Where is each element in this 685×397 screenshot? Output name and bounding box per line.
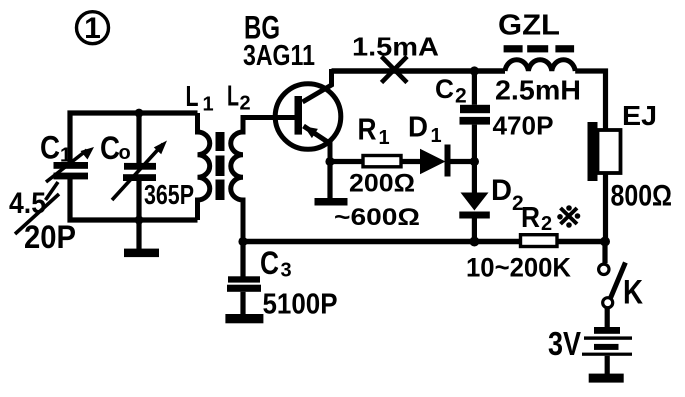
svg-text:D: D [408, 112, 428, 144]
svg-text:C: C [40, 130, 60, 166]
diode D1 [420, 149, 446, 174]
capacitor C2 [472, 71, 477, 105]
svg-text:2: 2 [512, 192, 524, 215]
svg-text:1: 1 [60, 145, 71, 167]
svg-text:10~200K: 10~200K [466, 253, 571, 283]
svg-text:365P: 365P [144, 179, 194, 210]
ground battery [589, 374, 624, 383]
svg-text:o: o [119, 142, 131, 164]
capacitor C0 arrow [112, 144, 163, 200]
node tank bottom [135, 216, 144, 225]
svg-text:GZL: GZL [498, 10, 560, 42]
node C2 top [470, 66, 479, 75]
svg-text:470P: 470P [493, 111, 554, 141]
node bottom L2/C3 [238, 237, 247, 246]
svg-text:200Ω: 200Ω [349, 170, 415, 198]
wire emitter to ground [327, 162, 332, 199]
value slash marks 4.5/20P [46, 182, 59, 200]
wire C0 branch top [136, 113, 141, 163]
figure number circle 1 [77, 12, 109, 44]
inductor L1 [198, 113, 210, 220]
node tank top [135, 109, 144, 118]
svg-text:2: 2 [541, 213, 552, 235]
svg-text:1.5mA: 1.5mA [352, 32, 439, 62]
svg-text:3AG11: 3AG11 [243, 40, 315, 72]
svg-text:2: 2 [455, 85, 467, 108]
earphone EJ [588, 122, 598, 181]
transistor emitter arrow [304, 126, 318, 138]
ground C3 [225, 314, 263, 323]
node emitter junction [325, 157, 334, 166]
svg-text:C: C [100, 130, 120, 166]
svg-text:D: D [491, 174, 512, 207]
node bottom D2 [469, 237, 479, 247]
wire bottom rail [243, 239, 521, 245]
svg-text:2.5mH: 2.5mH [495, 75, 581, 106]
resistor R1 [363, 156, 401, 167]
transistor BG circle [275, 84, 341, 150]
svg-text:C: C [260, 245, 279, 281]
node detector [470, 157, 479, 166]
wire rail to EJ [575, 71, 605, 130]
ground tank [124, 249, 159, 258]
wire tank top rail [70, 113, 198, 162]
svg-text:20P: 20P [24, 219, 76, 255]
svg-text:~600Ω: ~600Ω [334, 204, 420, 231]
svg-text:2: 2 [240, 93, 251, 115]
capacitor C1 arrow [46, 150, 87, 182]
svg-text:L: L [186, 81, 199, 113]
svg-text:K: K [623, 274, 643, 312]
wire R1 to D1 [401, 159, 420, 164]
wire emitter to R1 [330, 159, 363, 164]
capacitor C0 plates [124, 163, 156, 170]
svg-text:3V: 3V [548, 325, 581, 362]
resistor R2 [521, 235, 558, 247]
svg-text:1: 1 [203, 94, 214, 116]
switch K [602, 242, 607, 264]
svg-text:800Ω: 800Ω [611, 180, 673, 213]
ground emitter [315, 198, 348, 206]
current break X 1.5mA [382, 57, 408, 83]
transistor emitter lead [304, 126, 331, 162]
svg-text:1: 1 [379, 127, 390, 149]
svg-text:R: R [358, 112, 377, 147]
svg-text:1: 1 [431, 125, 442, 147]
svg-text:L: L [227, 81, 239, 113]
wire tank bottom rail [70, 176, 198, 220]
svg-text:1: 1 [84, 12, 101, 45]
transformer core dashes [216, 132, 225, 151]
capacitor C1 plates [54, 162, 89, 169]
svg-text:5100P: 5100P [263, 289, 338, 321]
transistor collector lead [303, 69, 332, 102]
wire D1 to node [451, 159, 475, 164]
capacitor C3 [240, 242, 245, 278]
svg-text:EJ: EJ [622, 100, 657, 131]
GZL core dashes [504, 45, 523, 52]
svg-text:3: 3 [281, 260, 292, 282]
diode D2 [472, 162, 477, 194]
battery 3V [605, 308, 610, 327]
reference mark [561, 208, 578, 224]
wire C0 branch bottom to ground [136, 181, 141, 249]
wire top rail [332, 68, 506, 74]
wire EJ to switch node [603, 173, 608, 242]
svg-text:R: R [521, 202, 540, 234]
inductor GZL [505, 60, 575, 71]
node switch top [600, 237, 610, 247]
svg-text:4.5: 4.5 [9, 187, 46, 220]
transistor base bar [295, 96, 303, 135]
inductor L2 [231, 118, 296, 242]
svg-text:C: C [435, 74, 454, 104]
